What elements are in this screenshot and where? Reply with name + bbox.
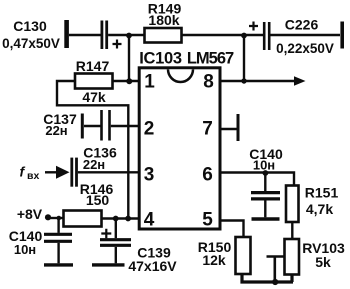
node junction C130/R149/pin1 <box>126 33 132 39</box>
wire <box>69 34 101 36</box>
node junction R147/pin1 <box>126 78 132 84</box>
wire <box>271 34 341 36</box>
node junction pin8/C226 <box>241 78 246 83</box>
op-amp U1 IC103 LM567 body <box>139 68 220 229</box>
svg-text:10н: 10н <box>253 158 275 173</box>
wire R147 left to +8V rail <box>57 81 128 219</box>
svg-text:22н: 22н <box>45 123 67 138</box>
svg-text:2: 2 <box>144 119 155 140</box>
svg-text:47x16V: 47x16V <box>128 258 177 274</box>
svg-text:0,22x50V: 0,22x50V <box>276 41 334 56</box>
wire <box>128 36 130 81</box>
svg-text:5k: 5k <box>315 254 331 270</box>
svg-text:4: 4 <box>144 210 155 231</box>
wire pin7 <box>221 128 237 130</box>
svg-text:22н: 22н <box>83 157 105 172</box>
svg-text:8: 8 <box>203 72 214 93</box>
svg-text:вх: вх <box>27 170 39 182</box>
svg-text:12k: 12k <box>202 252 226 268</box>
wire pin8 output arrow <box>221 76 306 85</box>
capacitor C226 <box>249 22 269 51</box>
capacitor C140b <box>251 173 280 217</box>
resistor R150 <box>236 237 251 274</box>
terminal bar right (C226 output terminal) <box>340 22 344 49</box>
resistor R146 <box>64 211 102 227</box>
terminal bar C140b <box>252 217 280 220</box>
wire pin5 <box>221 221 244 238</box>
potentiometer RV103 <box>285 239 300 275</box>
node junction C139/pin4 <box>113 216 119 222</box>
svg-text:LM567: LM567 <box>187 50 234 68</box>
resistor R151 <box>286 186 299 223</box>
node junction wiper/rail <box>272 279 278 285</box>
capacitor C140a <box>44 218 72 263</box>
wire pin6 <box>221 173 294 186</box>
input arrow <box>45 166 70 179</box>
svg-text:R151: R151 <box>305 185 339 201</box>
wire pin1 <box>113 80 140 82</box>
wire <box>243 36 245 82</box>
svg-text:IC103: IC103 <box>139 50 182 68</box>
terminal bar C140a <box>44 263 73 266</box>
wire bottom rail <box>242 274 293 282</box>
wire <box>182 34 264 36</box>
wire pin4 <box>102 217 140 219</box>
wire <box>108 34 144 36</box>
svg-text:4,7k: 4,7k <box>306 201 333 217</box>
svg-text:150: 150 <box>86 192 110 208</box>
node junction C140a/+8V <box>57 216 62 221</box>
input f vx label <box>20 164 40 183</box>
terminal bar left (C130 input terminal) <box>64 20 69 48</box>
resistor R149 <box>145 28 182 43</box>
svg-text:3: 3 <box>144 165 155 186</box>
wire pin2 <box>111 125 139 127</box>
svg-text:0,47x50V: 0,47x50V <box>2 36 60 51</box>
svg-text:10н: 10н <box>14 242 36 257</box>
svg-text:+8V: +8V <box>17 206 43 222</box>
svg-text:47k: 47k <box>82 89 106 105</box>
resistor R147 <box>75 74 113 89</box>
capacitor C137 <box>82 110 109 141</box>
svg-text:5: 5 <box>202 210 213 231</box>
wiper RV103 <box>267 257 285 283</box>
+8V terminal <box>45 214 64 220</box>
capacitor C130 <box>102 21 122 50</box>
node junction R149/C226/pin8 <box>241 33 247 39</box>
svg-text:C226: C226 <box>285 17 319 33</box>
svg-text:6: 6 <box>202 165 213 186</box>
svg-text:C130: C130 <box>13 18 47 34</box>
svg-text:f: f <box>20 164 26 180</box>
capacitor C139 <box>100 219 131 264</box>
svg-text:R147: R147 <box>76 58 110 74</box>
wire pin3 <box>78 171 139 173</box>
terminal bar C139 <box>92 263 125 266</box>
wire R151 to RV103 <box>291 222 293 239</box>
node junction pin6/C140b <box>263 170 269 176</box>
svg-text:7: 7 <box>202 119 213 140</box>
terminal bar pin7 <box>237 114 240 141</box>
capacitor C136 <box>72 158 77 187</box>
svg-text:180k: 180k <box>148 12 179 28</box>
svg-text:1: 1 <box>144 72 155 93</box>
node junction +8Vrail/pin4 <box>125 216 131 222</box>
